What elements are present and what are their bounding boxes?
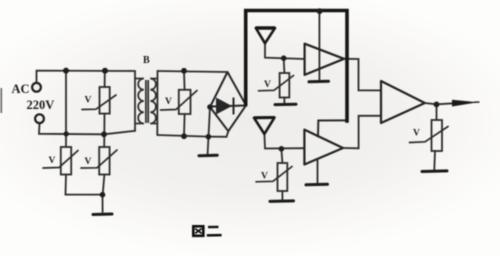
svg-text:V: V [165,97,172,107]
svg-text:V: V [49,156,56,166]
svg-text:V: V [261,172,268,182]
svg-text:V: V [413,129,420,139]
svg-text:V: V [85,96,92,106]
svg-text:B: B [143,55,150,66]
svg-text:AC: AC [12,82,30,96]
svg-text:V: V [85,157,92,167]
svg-text:220V: 220V [27,98,55,112]
svg-text:V: V [264,80,271,90]
